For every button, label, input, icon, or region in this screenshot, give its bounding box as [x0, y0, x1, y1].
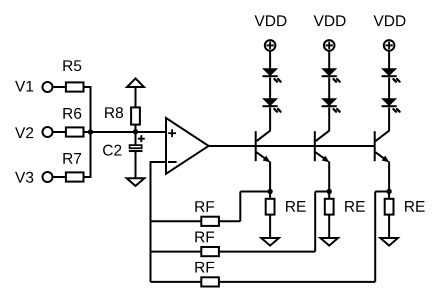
power terminal VDD 1 — [265, 40, 276, 51]
wire emitter tap 3 — [375, 192, 389, 282]
terminal V1 label — [15, 81, 33, 92]
LED D1 — [263, 69, 281, 82]
ground below RE2 — [320, 238, 338, 246]
wire op-amp - input — [151, 161, 167, 163]
transistor Q2 — [315, 131, 330, 163]
resistor R6 — [63, 108, 83, 137]
resistor RF2 — [195, 232, 219, 257]
wire R8 to node — [135, 125, 137, 133]
resistor RE2 — [325, 199, 365, 215]
wire V2 to R6 — [53, 131, 66, 133]
wire node to op-amp + input — [91, 131, 167, 133]
supply arrow above R8 — [127, 78, 144, 87]
terminal V3 label — [15, 172, 33, 183]
LED D6 — [382, 99, 400, 112]
ground below C2 — [127, 178, 145, 186]
wire input bus vertical — [90, 86, 92, 178]
node emitter junction 2 — [327, 189, 332, 194]
wire R7 to input bus — [84, 176, 91, 178]
node input junction — [88, 129, 93, 134]
wire RE to ground — [269, 215, 271, 238]
wire emitter tap 2 — [315, 192, 329, 252]
wire feedback bus vertical — [150, 161, 152, 282]
LED D2 — [263, 99, 281, 112]
wire VDD to LED — [388, 51, 390, 70]
wire R6 to input bus — [84, 131, 91, 133]
transistor Q3 — [375, 131, 390, 163]
wire LED to LED — [328, 78, 330, 100]
LED D4 — [322, 99, 340, 112]
transistor Q1 — [256, 131, 271, 163]
resistor RE3 — [385, 199, 425, 215]
terminal V1 — [43, 82, 53, 92]
capacitor C2 — [103, 135, 145, 155]
terminal V2 label — [15, 127, 33, 138]
resistor R8 — [105, 107, 140, 124]
terminal V3 — [43, 172, 53, 182]
wire emitter down — [328, 162, 330, 199]
LED D3 — [322, 69, 340, 82]
wire RF2 line — [151, 251, 316, 253]
wire V1 to R5 — [53, 86, 66, 88]
wire VDD to LED — [269, 51, 271, 70]
resistor R7 — [63, 153, 83, 182]
wire LED to LED — [388, 78, 390, 100]
wire LED to collector — [269, 108, 271, 132]
terminal V2 — [43, 127, 53, 137]
wire emitter down — [269, 162, 271, 199]
op-amp U1 — [166, 118, 209, 174]
power terminal VDD 2 — [324, 40, 335, 51]
resistor RF3 — [195, 262, 219, 287]
VDD label 1 — [255, 15, 287, 26]
wire RF3 line — [151, 281, 376, 283]
wire C2 to ground — [135, 152, 137, 178]
wire emitter tap 1 — [240, 192, 270, 222]
wire RE to ground — [388, 215, 390, 238]
wire V3 to R7 — [53, 176, 66, 178]
VDD label 2 — [314, 15, 346, 26]
resistor RF1 — [195, 201, 219, 226]
power terminal VDD 3 — [384, 40, 395, 51]
ground below RE3 — [380, 238, 398, 246]
node emitter junction 3 — [386, 189, 391, 194]
wire emitter down — [388, 162, 390, 199]
wire LED to collector — [388, 108, 390, 132]
wire op-amp output to bases — [208, 145, 376, 147]
resistor R5 — [63, 60, 83, 91]
wire RF1 line — [151, 220, 241, 222]
node R8/C2 junction — [133, 129, 138, 134]
wire LED to collector — [328, 108, 330, 132]
wire node to C2 — [135, 132, 137, 145]
node emitter junction 1 — [267, 189, 272, 194]
wire RE to ground — [328, 215, 330, 238]
wire LED to LED — [269, 78, 271, 100]
wire VDD to LED — [328, 51, 330, 70]
VDD label 3 — [374, 15, 406, 26]
resistor RE1 — [266, 199, 306, 215]
ground below RE1 — [261, 238, 279, 246]
LED D5 — [382, 69, 400, 82]
wire R5 to input bus — [84, 86, 91, 88]
wire supply arrow to R8 — [135, 88, 137, 108]
